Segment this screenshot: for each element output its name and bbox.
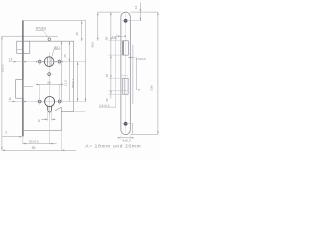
svg-text:2: 2 <box>5 130 7 134</box>
follower centerline vertical <box>49 53 51 116</box>
dim 235 overall <box>157 12 159 134</box>
svg-text:45: 45 <box>75 32 79 36</box>
dim line middle <box>68 41 70 101</box>
follower hole <box>44 57 54 67</box>
dim line top horizontal <box>2 35 58 37</box>
faceplate front view outline <box>121 12 130 134</box>
svg-text:3.6+0.2: 3.6+0.2 <box>99 103 110 107</box>
svg-text:12: 12 <box>9 58 13 62</box>
deadbolt <box>16 80 23 99</box>
latch cutout <box>123 41 128 55</box>
svg-text:35.5: 35.5 <box>91 42 95 48</box>
dim 35.5 <box>97 12 99 41</box>
dim 12 top right <box>139 3 141 21</box>
svg-text:78±0.1: 78±0.1 <box>71 78 75 88</box>
screw circle right of follower <box>58 60 61 63</box>
svg-text:45: 45 <box>63 54 67 58</box>
svg-text:165.5: 165.5 <box>0 64 4 72</box>
cylinder centerline horizontal <box>8 101 86 103</box>
cylinder stem <box>48 106 52 112</box>
screw circle right of cylinder <box>58 100 61 103</box>
svg-text:21.5: 21.5 <box>63 80 67 86</box>
dim 8 right <box>136 58 138 91</box>
dim 78±0.1 <box>77 62 79 102</box>
screw circle left of cylinder <box>38 100 41 103</box>
screw circle left of follower <box>38 60 41 63</box>
svg-text:30: 30 <box>105 98 109 102</box>
svg-text:52: 52 <box>105 73 109 77</box>
svg-text:8: 8 <box>38 119 40 123</box>
dim line right of case <box>85 21 87 102</box>
svg-text:85: 85 <box>32 146 36 150</box>
top screw hole <box>124 19 128 23</box>
screw hole under leader <box>48 38 51 41</box>
plate top extension left <box>98 11 121 13</box>
plate top extension right <box>130 11 158 13</box>
svg-text:55+0.5: 55+0.5 <box>29 139 39 143</box>
follower square <box>47 58 51 66</box>
latch bolt <box>17 41 30 53</box>
svg-text:A= 18mm und 20mm: A= 18mm und 20mm <box>85 144 141 150</box>
dim bottom right small <box>132 124 134 135</box>
bottom screw hole <box>124 122 128 126</box>
svg-text:Ø7(8x): Ø7(8x) <box>36 27 46 31</box>
dim line 21.5 <box>61 41 63 101</box>
leader dashed <box>43 30 48 37</box>
extension at step <box>61 110 85 112</box>
follower centerline horizontal <box>8 61 86 63</box>
dim line overall height left <box>1 36 3 150</box>
plate bottom extension right <box>130 133 158 135</box>
left dim chain of plate <box>110 12 112 98</box>
svg-text:235: 235 <box>149 85 153 90</box>
svg-text:11: 11 <box>8 97 12 101</box>
svg-text:8: 8 <box>137 89 141 91</box>
case corner diagonal <box>55 107 61 111</box>
deadbolt cutout <box>123 78 128 94</box>
svg-text:12: 12 <box>134 5 138 9</box>
dim 40 top <box>81 21 83 42</box>
svg-text:55: 55 <box>105 36 109 40</box>
plate centerline <box>125 14 127 133</box>
faceplate edge-on (dark vertical) <box>22 21 24 137</box>
dim A width <box>121 137 130 139</box>
screw circle below follower <box>48 73 51 76</box>
top extension line from faceplate top <box>23 20 86 22</box>
svg-text:A±0.2: A±0.2 <box>122 139 130 143</box>
svg-text:6.5±0.5: 6.5±0.5 <box>136 57 147 61</box>
cylinder hole circle <box>45 97 55 107</box>
lock case outline <box>23 41 74 111</box>
